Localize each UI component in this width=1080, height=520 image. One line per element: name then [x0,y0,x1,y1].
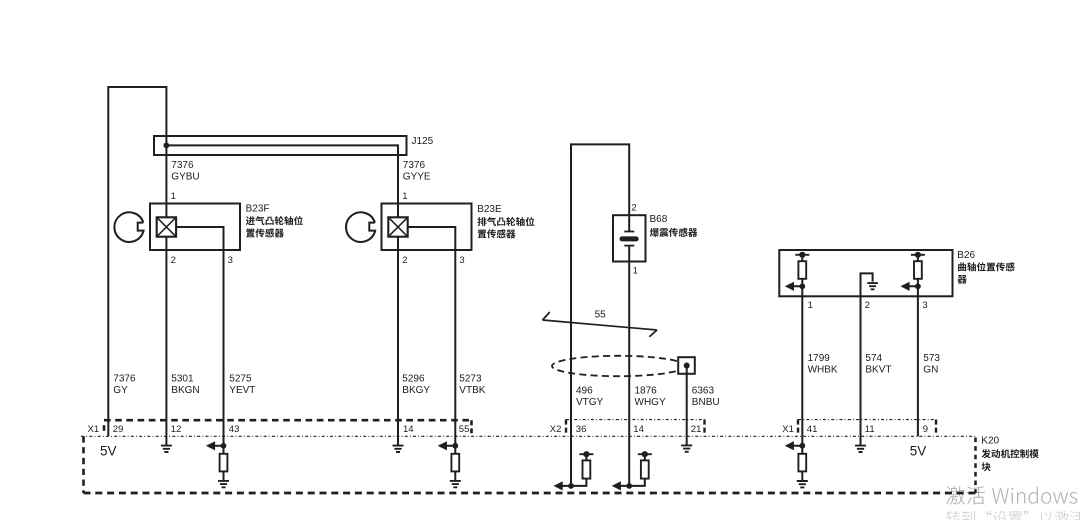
svg-text:B68: B68 [650,214,668,225]
label connector X2 [550,424,562,435]
node pin 43 junction [221,443,227,449]
svg-text:7376: 7376 [403,160,426,171]
svg-text:43: 43 [229,424,240,435]
svg-text:B26: B26 [957,250,975,261]
sensor B68 box [613,215,646,261]
wire 7376 GYYE (J125 to B23E pin 1) [166,145,398,217]
node B26 pin1 junction [799,283,805,289]
pin 2 label B23E [402,255,407,266]
ECM boundary dotted line [81,435,976,437]
resistor B26 pin 3 [914,261,922,279]
Windows activation watermark line 2 (转到“设置”以激活 W, clipped) [946,511,1080,520]
wire 5V feed from ECM pin 29 up and over to J125 junction [108,87,166,436]
label connector X1 (right) [782,424,794,435]
svg-text:2: 2 [402,255,407,266]
wire 5301 BKGN (B23F pin 2 to ECM pin 12) [165,237,167,437]
B26 internal wire pin 3 [909,255,918,286]
svg-text:2: 2 [171,255,176,266]
harness marker 55 line [543,312,658,337]
svg-text:WHBK: WHBK [808,364,838,375]
B23F connector circle [114,212,143,242]
svg-text:BNBU: BNBU [692,397,720,408]
label B23F [246,203,270,214]
B23E hall element (boxed X) [388,217,407,236]
svg-text:5301: 5301 [171,373,194,384]
pin 2 label B26 [865,300,870,311]
B68 piezo element bar [620,236,639,241]
wire 5296 BKGY (B23E pin 2 to ECM pin 14) [397,237,399,437]
wire 1876 WHGY (B68 pin 1 to ECM pin 14) [628,246,630,437]
pin 12 label [171,424,182,435]
wire 573 GN (B26 pin 3 to ECM pin 9) [917,286,919,436]
wire 1799 WHBK (B26 pin 1 to ECM pin 41) [801,286,803,436]
label wire 1799 WHBK [808,353,838,376]
pin 14 label (X2) [633,424,644,435]
svg-text:BKGN: BKGN [171,385,199,396]
label wire 7376 GYBU [171,160,199,183]
label J125 [412,136,434,147]
svg-text:VTBK: VTBK [459,385,485,396]
ground (ECM pin 12) [161,436,172,452]
label K20 [981,436,999,447]
label wire 496 VTGY [576,386,604,409]
label wire 5275 YEVT [229,373,255,396]
label wire 573 GN [923,353,940,376]
B23E connector circle [346,212,375,242]
ECM pin 43 network wire [215,436,224,480]
ground (B26 internal) [867,283,878,289]
svg-text:496: 496 [576,386,593,397]
resistor (ECM pin 14 X2) [641,460,649,478]
label wire 574 BKVT [865,353,891,376]
svg-text:K20: K20 [981,436,999,447]
B26 internal wire pin 1 [794,255,803,286]
pin 1 label B26 [808,300,813,311]
pin 9 label [923,424,928,435]
svg-text:GYBU: GYBU [171,172,199,183]
label K20 name line2 (块) [982,462,991,471]
node B26 pin3 junction [915,283,921,289]
twisted pair ellipse [552,356,685,376]
svg-text:2: 2 [865,300,870,311]
svg-text:5V: 5V [100,444,117,459]
B23F hall element (boxed X) [157,217,176,236]
svg-text:1: 1 [633,266,638,277]
svg-text:VTGY: VTGY [576,397,604,408]
ground (ECM pin 21) [681,436,692,452]
B68 piezo element top plate [624,231,634,233]
connector X1 bracket (right group) [798,420,936,433]
pin 1 label B68 [633,266,638,277]
B26 output arrow pin 1 [785,282,794,291]
ECM pin 55 network wire [447,436,456,480]
label B68 name (爆震传感器) [650,228,698,237]
label wire 5273 VTBK [459,373,485,396]
wire 7376 GYBU (J125 to B23F pin 1) [165,145,167,217]
B26 internal wire pin 2 [861,273,873,296]
B26 output arrow pin 3 [900,282,909,291]
ground (ECM pin 14) [393,436,404,452]
svg-text:5V: 5V [910,444,927,459]
svg-text:7376: 7376 [171,160,194,171]
svg-text:14: 14 [633,424,644,435]
Windows activation watermark line 1 (激活 Windows) [946,486,1077,505]
shield drain box [678,357,695,374]
label 5V (right, pin 9) [910,444,927,459]
label B23E name line1 (排气凸轮轴位) [478,217,535,226]
ECM pin 41 network wire [794,436,803,481]
label K20 name line1 (发动机控制模) [982,449,1039,458]
node J125 splice junction [164,143,170,149]
pin 3 label B23F [228,255,233,266]
ECM K20 dashed box edges [84,436,976,493]
svg-text:BKVT: BKVT [865,364,891,375]
svg-text:BKGY: BKGY [402,385,430,396]
svg-text:1: 1 [808,300,813,311]
label B26 name line2 (器) [958,275,967,284]
svg-text:574: 574 [865,353,882,364]
ECM input arrow pin 36 [554,481,563,490]
svg-text:X1: X1 [88,424,100,435]
label wire 6363 BNBU [692,386,720,409]
svg-text:1876: 1876 [635,386,658,397]
pin 21 label [691,424,702,435]
connector X1 bracket (left group) [104,420,472,433]
resistor (ECM pin 55) [451,454,459,472]
resistor (ECM pin 41) [798,454,806,472]
ECM pin 36 network wire [562,436,586,486]
svg-text:X1: X1 [782,424,794,435]
resistor (ECM pin 36) [583,460,591,478]
B23F internal wire pin 3 [176,227,223,250]
label B23E name line2 (置传感器) [478,229,516,238]
connector X2 bracket [566,420,705,433]
svg-text:5296: 5296 [402,373,425,384]
ground (ECM pin 43) [218,481,229,487]
ground (ECM pin 41) [797,481,808,487]
B26 internal supply rail pin 1 [795,252,809,258]
label harness 55 [595,310,607,321]
pin 3 label B26 [922,300,927,311]
ECM input arrow pin 14 X2 [612,481,621,490]
svg-text:55: 55 [459,424,470,435]
svg-text:41: 41 [807,424,818,435]
sensor B23F box [150,204,240,251]
label B68 [650,214,668,225]
svg-text:1799: 1799 [808,353,831,364]
svg-text:21: 21 [691,424,702,435]
B23E internal wire pin 3 [408,227,456,250]
svg-text:3: 3 [922,300,927,311]
label B23E [477,204,502,215]
label wire 7376 GYYE [403,160,431,183]
svg-text:B23F: B23F [246,203,270,214]
svg-text:1: 1 [171,191,176,202]
B68 piezo element bottom plate [624,245,634,247]
svg-text:GYYE: GYYE [403,172,431,183]
pin 41 label [807,424,818,435]
sensor B26 box [779,250,952,296]
pin 2 label B23F [171,255,176,266]
pin 55 label [459,424,470,435]
svg-text:573: 573 [923,353,940,364]
ECM input arrow pin 43 [206,441,215,450]
ECM supply rail (pin 36 network) [579,451,593,457]
svg-text:3: 3 [459,255,464,266]
svg-text:11: 11 [865,424,875,435]
pin 43 label [229,424,240,435]
ground (ECM pin 11) [855,436,866,452]
wire 5273 VTBK (B23E pin 3 to ECM pin 55) [454,250,456,436]
ECM input arrow pin 41 [785,441,794,450]
svg-text:29: 29 [113,424,124,435]
svg-text:6363: 6363 [692,386,715,397]
pin 3 label B23E [459,255,464,266]
node pin 55 junction [452,443,458,449]
label wire 5301 BKGN [171,373,199,396]
node pin 41 junction [799,443,805,449]
pin 1 label B23F [171,191,176,202]
svg-text:14: 14 [403,424,414,435]
label B23F name line2 (置传感器) [246,228,284,237]
label B26 [957,250,975,261]
svg-text:J125: J125 [412,136,434,147]
svg-text:7376: 7376 [113,373,136,384]
resistor (ECM pin 43) [220,454,228,472]
label B23F name line1 (进气凸轮轴位) [246,216,303,225]
resistor B26 pin 1 [798,261,806,279]
wire 6363 BNBU (shield drain to ECM pin 21) [686,366,688,437]
svg-text:1: 1 [402,191,407,202]
svg-text:GY: GY [113,385,128,396]
label wire 1876 WHGY [635,386,666,409]
svg-text:36: 36 [576,424,587,435]
node shield drain junction [684,363,690,369]
svg-text:9: 9 [923,424,928,435]
ECM pin 14 X2 network wire [621,436,645,486]
pin 11 label [865,424,875,435]
sensor B23E box [382,204,472,251]
pin 14 label (X1) [403,424,414,435]
pin 29 label [113,424,124,435]
ECM input arrow pin 55 [438,441,447,450]
svg-text:55: 55 [595,310,607,321]
label B26 name line1 (曲轴位置传感) [958,262,1015,271]
B26 internal supply rail pin 3 [911,252,925,258]
node pin 36 junction [568,483,574,489]
svg-text:5275: 5275 [229,373,252,384]
label wire 7376 GY [113,373,136,396]
ECM supply rail (pin 14 X2 network) [638,451,652,457]
svg-text:B23E: B23E [477,204,502,215]
svg-text:WHGY: WHGY [635,397,666,408]
wire 496 VTGY (ECM pin 36 up and over to B68 pin 2) [571,144,629,436]
label 5V (left, pin 29) [100,444,117,459]
label connector X1 (left) [88,424,100,435]
wire 574 BKVT (B26 pin 2 to ECM pin 11) [860,296,862,436]
label wire 5296 BKGY [402,373,430,396]
svg-text:3: 3 [228,255,233,266]
svg-text:12: 12 [171,424,182,435]
svg-text:GN: GN [923,364,938,375]
node pin 14 X2 junction [626,483,632,489]
wire 5275 YEVT (B23F pin 3 to ECM pin 43) [223,250,225,436]
pin 36 label [576,424,587,435]
ground (ECM pin 55) [450,481,461,487]
svg-text:YEVT: YEVT [229,385,255,396]
svg-text:2: 2 [631,203,636,214]
splice pack J125 box [154,136,407,155]
svg-text:X2: X2 [550,424,562,435]
pin 1 label B23E [402,191,407,202]
svg-text:5273: 5273 [459,373,482,384]
pin 2 label B68 [631,203,636,214]
